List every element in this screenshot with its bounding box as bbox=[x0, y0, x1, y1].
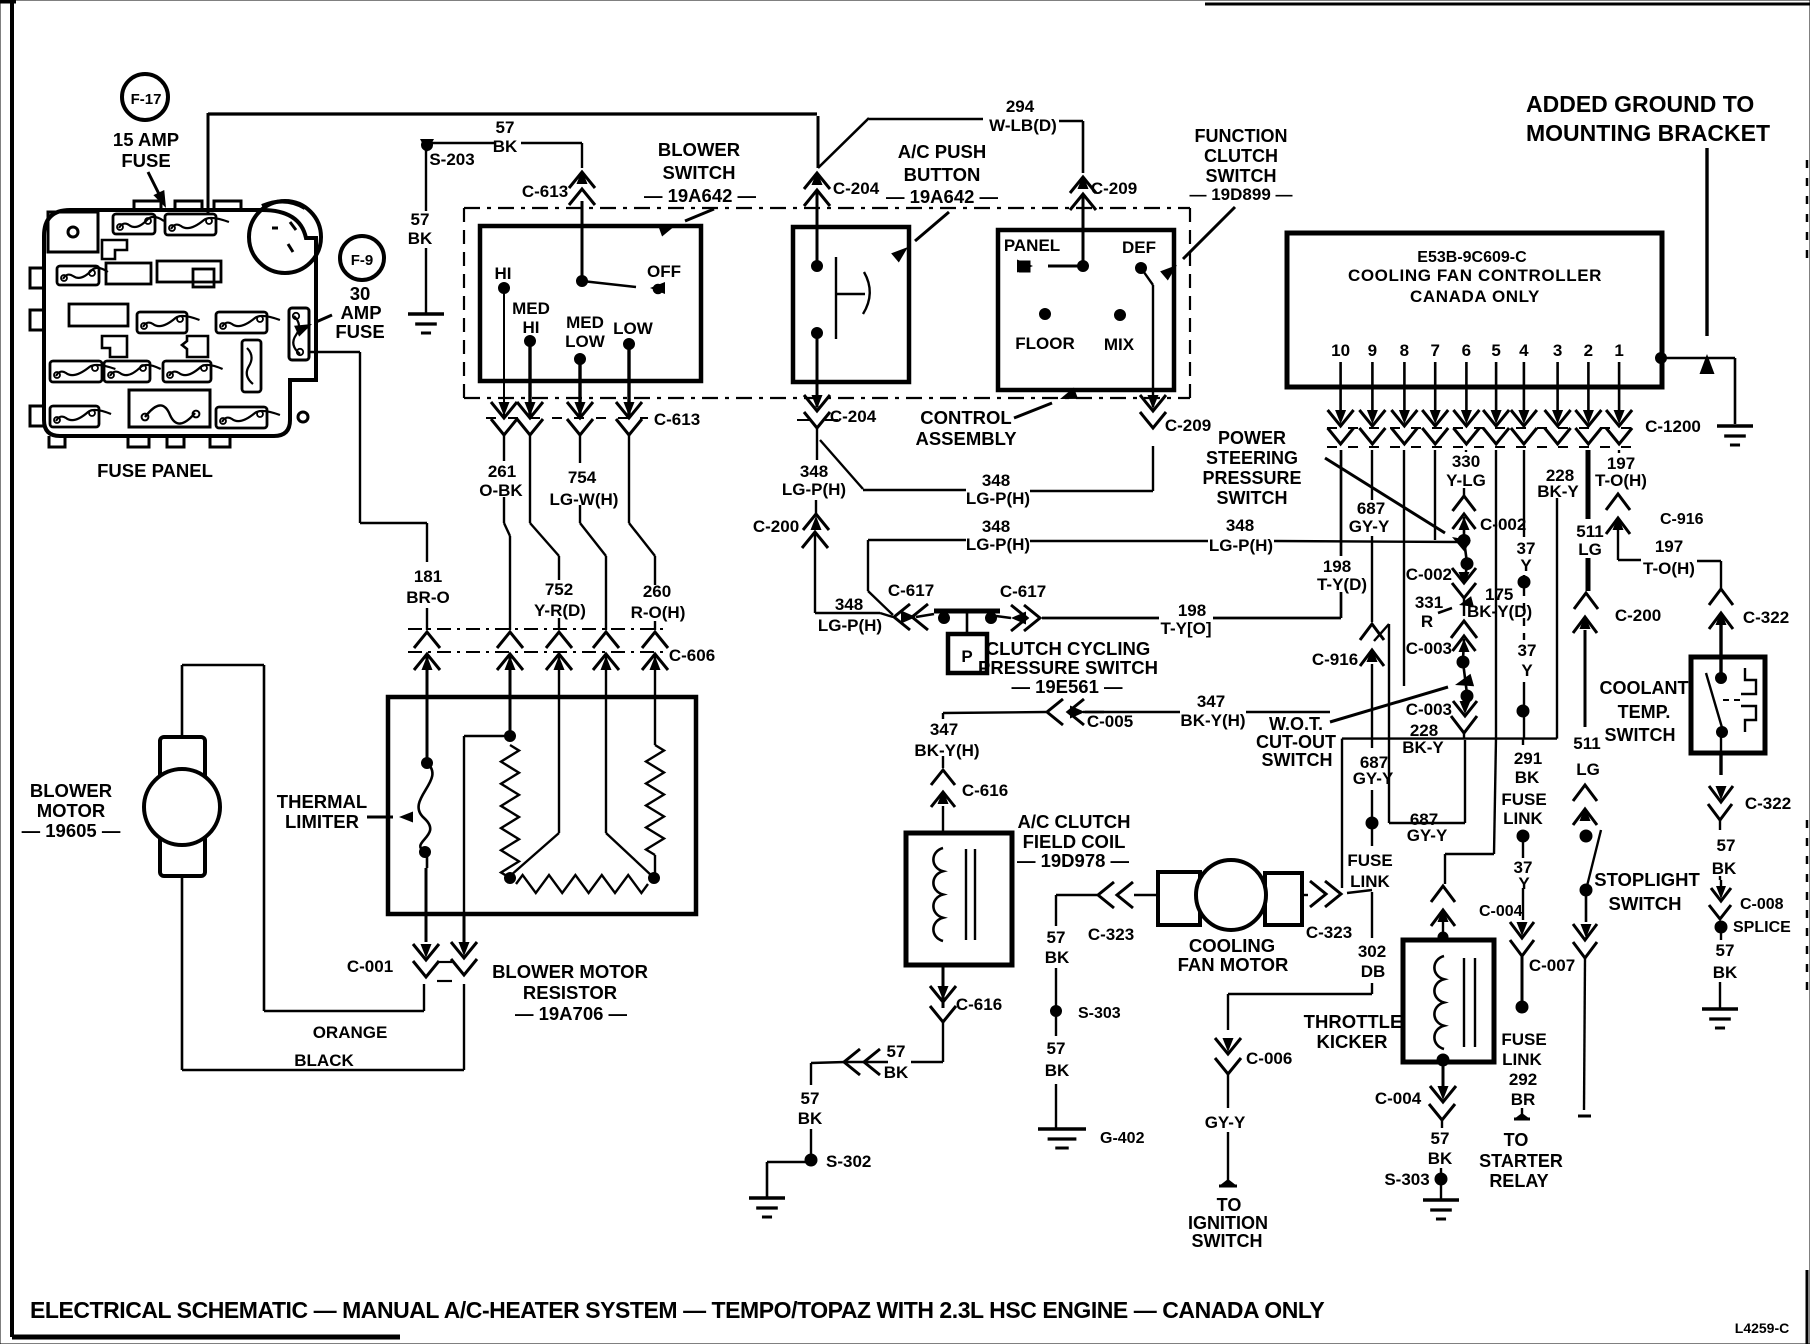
cooling fan controller box bbox=[1287, 233, 1662, 387]
wire main feed bus bbox=[208, 112, 817, 115]
node AC switch top bbox=[812, 261, 823, 272]
label S-303 kicker bbox=[1384, 1170, 1429, 1189]
label C-322 upper bbox=[1743, 608, 1789, 627]
arrow added ground bbox=[1700, 148, 1715, 374]
svg-text:T-Y[O]: T-Y[O] bbox=[1161, 619, 1212, 638]
svg-text:BK: BK bbox=[493, 137, 518, 156]
connector C-005 bbox=[1047, 699, 1104, 725]
svg-text:BK-Y(H): BK-Y(H) bbox=[914, 741, 979, 760]
label BLACK bbox=[294, 1051, 354, 1070]
label 228 BK-Y pin3 bbox=[1537, 466, 1579, 501]
svg-text:C-200: C-200 bbox=[753, 517, 799, 536]
connector C-616 lower bbox=[930, 986, 956, 1022]
wire funnel left bbox=[510, 833, 559, 876]
svg-text:O-BK: O-BK bbox=[479, 481, 523, 500]
label 348 LG-P(H) c bbox=[818, 595, 882, 635]
svg-text:LINK: LINK bbox=[1350, 872, 1390, 891]
label C-003 upper bbox=[1406, 639, 1452, 658]
connector C-613 lower bbox=[486, 402, 648, 435]
label G-402 bbox=[1100, 1130, 1145, 1147]
svg-text:57: 57 bbox=[801, 1089, 820, 1108]
label 57 BK top bbox=[493, 118, 518, 156]
wire coil to C-616 lower bbox=[942, 965, 945, 1008]
svg-text:OFF: OFF bbox=[647, 262, 681, 281]
label 15 AMP FUSE bbox=[113, 129, 179, 171]
connector C-002 lower bbox=[1452, 564, 1476, 598]
svg-text:S-302: S-302 bbox=[826, 1152, 871, 1171]
svg-text:C-323: C-323 bbox=[1306, 923, 1352, 942]
resistor R3 bottom bbox=[516, 875, 648, 893]
svg-text:SPLICE: SPLICE bbox=[1733, 919, 1791, 936]
svg-text:C-008: C-008 bbox=[1740, 896, 1784, 913]
wire S-302 to ground bbox=[767, 1162, 811, 1197]
label 752 Y-R(D) bbox=[534, 580, 586, 620]
svg-text:TO: TO bbox=[1504, 1130, 1529, 1150]
svg-text:HI: HI bbox=[495, 264, 512, 283]
svg-text:C-003: C-003 bbox=[1406, 700, 1452, 719]
function clutch switch box bbox=[998, 230, 1174, 390]
svg-text:T-O(H): T-O(H) bbox=[1643, 559, 1695, 578]
label FLOOR bbox=[1015, 334, 1075, 353]
svg-text:BK: BK bbox=[1712, 859, 1737, 878]
svg-text:BK-Y: BK-Y bbox=[1402, 738, 1444, 757]
label 198 T-Y(O) bbox=[1161, 601, 1212, 638]
arrow thermal limiter bbox=[367, 812, 413, 823]
label S-203 bbox=[429, 150, 474, 169]
label C-613 upper bbox=[522, 182, 568, 201]
label 57 BK coolant bbox=[1712, 836, 1737, 878]
label 175 BK-Y(D) bbox=[1467, 585, 1532, 621]
label L4259-C bbox=[1735, 1320, 1789, 1336]
svg-text:CUT-OUT: CUT-OUT bbox=[1256, 732, 1336, 752]
label 197 T-O(H) lower bbox=[1643, 537, 1695, 578]
svg-text:FUSE: FUSE bbox=[1501, 1030, 1546, 1049]
wire pin5 to C-004 bbox=[1445, 450, 1496, 884]
svg-text:Y: Y bbox=[1521, 661, 1533, 680]
connector C-001 bbox=[413, 942, 477, 981]
label MED HI bbox=[512, 299, 550, 337]
connector C-209 lower bbox=[1140, 395, 1166, 428]
label BLOWER MOTOR RESISTOR 19A706 bbox=[492, 961, 648, 1024]
svg-text:CLUTCH: CLUTCH bbox=[1204, 146, 1278, 166]
label 181 BR-O bbox=[406, 567, 449, 607]
node R1 bottom bbox=[505, 873, 516, 884]
connector C-200 pin2 bbox=[1573, 593, 1598, 633]
svg-text:SWITCH: SWITCH bbox=[663, 162, 736, 183]
wire to ground kicker bbox=[1440, 1179, 1442, 1199]
label A/C CLUTCH FIELD COIL 19D978 bbox=[1017, 811, 1131, 871]
ground G at S-302 bbox=[749, 1198, 785, 1217]
wire 57 BK to ground bbox=[1720, 927, 1721, 1008]
wire 348 C-200 down bbox=[815, 532, 893, 617]
svg-text:BK: BK bbox=[1713, 963, 1738, 982]
fuse F-17 circle bbox=[122, 74, 168, 120]
label C-916 pin1 bbox=[1660, 511, 1704, 528]
arrow blower switch label bbox=[658, 209, 714, 236]
wire MED HI to C-613 bbox=[528, 341, 531, 416]
svg-text:ASSEMBLY: ASSEMBLY bbox=[915, 428, 1017, 449]
wires C-606 into resistor box bbox=[427, 656, 655, 833]
svg-text:W.O.T.: W.O.T. bbox=[1269, 714, 1323, 734]
svg-text:C-004: C-004 bbox=[1479, 903, 1523, 920]
svg-text:348: 348 bbox=[800, 462, 828, 481]
wire C-209 into box bbox=[1082, 194, 1085, 266]
svg-text:347: 347 bbox=[930, 720, 958, 739]
svg-text:A/C PUSH: A/C PUSH bbox=[898, 141, 986, 162]
wire 57 BK kicker bbox=[1441, 1120, 1442, 1179]
svg-text:C-002: C-002 bbox=[1406, 565, 1452, 584]
svg-text:348: 348 bbox=[982, 471, 1010, 490]
title text bbox=[30, 1297, 1324, 1323]
svg-text:30: 30 bbox=[350, 283, 371, 304]
label 30 AMP FUSE bbox=[335, 283, 384, 342]
svg-text:FUSE PANEL: FUSE PANEL bbox=[97, 460, 213, 481]
svg-text:FUNCTION: FUNCTION bbox=[1195, 126, 1288, 146]
wire pin6 b bbox=[1463, 662, 1467, 694]
wire motor right bbox=[1302, 881, 1372, 907]
wire 754 LG-W(H) bbox=[580, 435, 606, 630]
wire GY-Y bbox=[1227, 1074, 1229, 1182]
splice S-203 bbox=[420, 139, 434, 152]
wire to C-001 left bbox=[424, 852, 427, 1011]
label C-322 lower bbox=[1745, 794, 1791, 813]
label C-200 pin2 bbox=[1615, 606, 1661, 625]
svg-text:THROTTLE: THROTTLE bbox=[1304, 1011, 1403, 1032]
wire pin4 a bbox=[1523, 450, 1525, 582]
coolant temp switch box bbox=[1691, 657, 1765, 753]
label 57 BK left bbox=[408, 210, 433, 248]
label 57 BK at coil bbox=[884, 1042, 909, 1082]
wire pin4 b dashed bbox=[1523, 588, 1525, 640]
wire HI to C-613 bbox=[503, 288, 505, 416]
label C-204 upper bbox=[833, 179, 880, 198]
svg-text:Y: Y bbox=[1520, 556, 1532, 575]
svg-text:AMP: AMP bbox=[340, 302, 381, 323]
svg-text:LG: LG bbox=[1578, 540, 1602, 559]
wire C-204 into box bbox=[816, 190, 819, 266]
svg-text:IGNITION: IGNITION bbox=[1188, 1213, 1268, 1233]
label CANADA ONLY bbox=[1410, 287, 1540, 306]
wire stoplight down bbox=[1573, 890, 1597, 958]
svg-text:C-005: C-005 bbox=[1087, 712, 1133, 731]
label 57 BK above S-302 bbox=[798, 1089, 823, 1128]
label FUSE LINK left bbox=[1347, 851, 1392, 891]
wire pin2 b bbox=[1584, 630, 1587, 727]
coil throttle kicker bbox=[1434, 956, 1444, 1049]
AC push button box bbox=[793, 227, 909, 382]
label MIX bbox=[1104, 335, 1135, 354]
svg-text:57: 57 bbox=[1716, 941, 1735, 960]
svg-text:C-204: C-204 bbox=[833, 179, 880, 198]
svg-text:A/C CLUTCH: A/C CLUTCH bbox=[1017, 811, 1130, 832]
label OFF bbox=[647, 262, 681, 281]
wire 57 BK motor b bbox=[1055, 1011, 1057, 1128]
svg-text:C-323: C-323 bbox=[1088, 925, 1134, 944]
svg-text:FUSE: FUSE bbox=[1501, 790, 1546, 809]
label SPLICE bbox=[1733, 919, 1791, 936]
svg-text:291: 291 bbox=[1514, 749, 1542, 768]
wire pin4 e bbox=[1521, 956, 1524, 1007]
node FLOOR contact bbox=[1040, 309, 1051, 320]
blower switch box bbox=[480, 226, 701, 381]
svg-text:331: 331 bbox=[1415, 593, 1443, 612]
svg-text:9: 9 bbox=[1368, 341, 1377, 360]
svg-text:C-004: C-004 bbox=[1375, 1089, 1422, 1108]
label FUSE PANEL bbox=[97, 460, 213, 481]
label C-005 bbox=[1087, 712, 1133, 731]
wire controller case ground bbox=[1661, 358, 1735, 424]
svg-text:BK-Y(H): BK-Y(H) bbox=[1180, 711, 1245, 730]
svg-text:MIX: MIX bbox=[1104, 335, 1135, 354]
svg-text:SWITCH: SWITCH bbox=[1605, 725, 1676, 745]
wire 15 amp fuse to bus bbox=[207, 113, 210, 215]
wire 197 to coolant switch bbox=[1618, 518, 1721, 589]
svg-text:BK: BK bbox=[1515, 768, 1540, 787]
svg-text:BR: BR bbox=[1511, 1090, 1536, 1109]
svg-text:C-613: C-613 bbox=[522, 182, 568, 201]
border frame left edge bbox=[12, 0, 400, 1337]
wire pin4 d bbox=[1522, 836, 1524, 920]
connector C-007 a bbox=[1510, 922, 1534, 956]
label PANEL bbox=[1004, 236, 1060, 255]
label COOLANT TEMP SWITCH bbox=[1600, 678, 1689, 745]
svg-text:C-606: C-606 bbox=[669, 646, 715, 665]
node stoplight b bbox=[1580, 884, 1592, 896]
svg-text:— 19605 —: — 19605 — bbox=[22, 820, 121, 841]
svg-text:COOLANT: COOLANT bbox=[1600, 678, 1689, 698]
node C-003 b bbox=[1461, 690, 1473, 702]
connector C-322 lower bbox=[1708, 786, 1733, 820]
svg-text:57: 57 bbox=[1431, 1129, 1450, 1148]
svg-text:C-322: C-322 bbox=[1743, 608, 1789, 627]
wire AC switch to C-204 lower bbox=[816, 333, 819, 407]
wire 347 BK-Y(H) bbox=[943, 712, 1330, 768]
label 291 BK FUSE LINK bbox=[1501, 749, 1546, 828]
label COOLING FAN CONTROLLER bbox=[1348, 266, 1602, 285]
ground G at controller bbox=[1717, 426, 1753, 445]
label THERMAL LIMITER bbox=[277, 791, 367, 832]
arrow control assembly bbox=[1014, 388, 1078, 418]
svg-text:ORANGE: ORANGE bbox=[313, 1023, 388, 1042]
svg-text:P: P bbox=[961, 647, 972, 666]
svg-text:C-617: C-617 bbox=[888, 581, 934, 600]
label 261 O-BK bbox=[479, 462, 523, 500]
label 57 BK motor b bbox=[1045, 1039, 1070, 1080]
connector C-617 left bbox=[894, 604, 934, 630]
kicker core lines bbox=[1464, 958, 1475, 1047]
svg-text:BK: BK bbox=[1428, 1149, 1453, 1168]
svg-text:C-002: C-002 bbox=[1480, 515, 1526, 534]
connector C-004 lower bbox=[1429, 1086, 1456, 1120]
svg-text:— 19A706 —: — 19A706 — bbox=[515, 1003, 628, 1024]
svg-text:PRESSURE: PRESSURE bbox=[1202, 468, 1301, 488]
svg-text:Y-LG: Y-LG bbox=[1446, 471, 1486, 490]
node C-002 b bbox=[1461, 558, 1473, 570]
clutch cycling pressure switch bbox=[934, 611, 1000, 673]
svg-text:R: R bbox=[1421, 612, 1433, 631]
svg-text:BLOWER: BLOWER bbox=[30, 780, 112, 801]
svg-text:687: 687 bbox=[1357, 499, 1385, 518]
svg-text:C-209: C-209 bbox=[1091, 179, 1137, 198]
wire 198 T-Y(O) bbox=[1042, 592, 1341, 618]
coolant switch element bbox=[1723, 668, 1756, 732]
node C-002 a bbox=[1458, 535, 1470, 547]
connector C-002 upper bbox=[1453, 496, 1476, 538]
svg-text:BK: BK bbox=[408, 229, 433, 248]
splice S-303 motor bbox=[1051, 1006, 1062, 1017]
label C-002 upper bbox=[1480, 515, 1526, 534]
label LOW bbox=[613, 319, 654, 338]
node fuse link pin9 bbox=[1366, 817, 1378, 829]
svg-text:C-003: C-003 bbox=[1406, 639, 1452, 658]
node HI contact bbox=[499, 283, 510, 294]
label E53B-9C609-C bbox=[1417, 249, 1527, 266]
node fuse link 292 bbox=[1516, 1001, 1528, 1013]
svg-text:BLACK: BLACK bbox=[294, 1051, 354, 1070]
label 57 BK splice bbox=[1713, 941, 1738, 982]
wire coolant switch out bbox=[1720, 732, 1722, 775]
label C-616 lower bbox=[956, 995, 1002, 1014]
svg-text:MOUNTING BRACKET: MOUNTING BRACKET bbox=[1526, 120, 1770, 146]
connector C-613 upper bbox=[569, 170, 595, 205]
label 687 GY-Y mid bbox=[1353, 753, 1394, 788]
svg-text:CLUTCH CYCLING: CLUTCH CYCLING bbox=[986, 638, 1150, 659]
node LOW contact bbox=[624, 339, 635, 350]
svg-text:330: 330 bbox=[1452, 452, 1480, 471]
connector C-616 upper bbox=[931, 770, 955, 807]
svg-text:294: 294 bbox=[1006, 97, 1035, 116]
label C-617 left bbox=[888, 581, 934, 600]
arrow 331 R bbox=[1438, 596, 1474, 613]
svg-text:BLOWER MOTOR: BLOWER MOTOR bbox=[492, 961, 648, 982]
wire black bbox=[182, 876, 464, 1070]
throttle kicker box bbox=[1403, 940, 1494, 1062]
svg-text:S-303: S-303 bbox=[1078, 1005, 1121, 1022]
svg-text:DEF: DEF bbox=[1122, 238, 1156, 257]
label DEF bbox=[1122, 238, 1156, 257]
cooling fan motor symbol bbox=[1158, 860, 1302, 930]
svg-text:C-916: C-916 bbox=[1312, 650, 1358, 669]
svg-text:MED: MED bbox=[566, 313, 604, 332]
wire 57 BK coolant a bbox=[1719, 820, 1721, 880]
svg-text:PRESSURE SWITCH: PRESSURE SWITCH bbox=[978, 657, 1158, 678]
label CLUTCH CYCLING PRESSURE SWITCH 19E561 bbox=[978, 638, 1158, 697]
svg-text:754: 754 bbox=[568, 468, 597, 487]
label C-209 lower bbox=[1165, 416, 1211, 435]
wire pin9 lower bbox=[1371, 664, 1373, 846]
svg-text:CANADA ONLY: CANADA ONLY bbox=[1410, 287, 1540, 306]
thermal limiter bbox=[419, 758, 433, 858]
connector C-204 lower bbox=[797, 395, 838, 428]
label 198 T-Y(D) bbox=[1317, 557, 1367, 594]
svg-text:C-916: C-916 bbox=[1660, 511, 1704, 528]
label C-008 bbox=[1740, 896, 1784, 913]
ground G kicker bbox=[1423, 1200, 1459, 1219]
svg-text:TEMP.: TEMP. bbox=[1618, 702, 1671, 722]
connector C-003 upper bbox=[1453, 636, 1476, 660]
label 294 W-LB(D) bbox=[989, 97, 1057, 135]
svg-text:57: 57 bbox=[1717, 836, 1736, 855]
svg-text:STARTER: STARTER bbox=[1479, 1151, 1563, 1171]
svg-text:LG-P(H): LG-P(H) bbox=[818, 616, 882, 635]
wire funnel right bbox=[606, 833, 652, 876]
node pin4 b bbox=[1517, 705, 1529, 717]
ground G coolant bbox=[1702, 1009, 1738, 1028]
svg-text:LG: LG bbox=[1576, 760, 1600, 779]
svg-text:LOW: LOW bbox=[565, 332, 606, 351]
svg-text:BUTTON: BUTTON bbox=[904, 164, 981, 185]
label C-617 right bbox=[1000, 582, 1046, 601]
wire pin9 upper bbox=[1371, 450, 1373, 622]
splice S-302 bbox=[805, 1154, 817, 1166]
node pin4 a bbox=[1518, 576, 1530, 588]
svg-text:511: 511 bbox=[1576, 522, 1603, 541]
connector C-322 upper bbox=[1709, 589, 1733, 629]
svg-text:C-1200: C-1200 bbox=[1645, 417, 1701, 436]
svg-text:752: 752 bbox=[545, 580, 573, 599]
coil AC clutch bbox=[933, 848, 943, 941]
connector C-323 left bbox=[1098, 882, 1133, 908]
svg-text:SWITCH: SWITCH bbox=[1262, 750, 1333, 770]
svg-text:261: 261 bbox=[488, 462, 516, 481]
node R2 bottom bbox=[649, 873, 660, 884]
svg-text:FUSE: FUSE bbox=[121, 150, 170, 171]
svg-text:TO: TO bbox=[1217, 1195, 1242, 1215]
svg-text:Y: Y bbox=[1518, 874, 1530, 893]
label ORANGE bbox=[313, 1023, 388, 1042]
svg-text:RELAY: RELAY bbox=[1489, 1171, 1548, 1191]
controller pin stubs bbox=[1341, 362, 1620, 420]
node MED HI contact bbox=[525, 336, 536, 347]
svg-text:348: 348 bbox=[835, 595, 863, 614]
svg-text:MED: MED bbox=[512, 299, 550, 318]
label 347 BK-Y(H) right bbox=[1180, 692, 1245, 730]
ground G-402 bbox=[1038, 1129, 1086, 1148]
svg-text:— 19A642 —: — 19A642 — bbox=[886, 186, 999, 207]
svg-text:LG-P(H): LG-P(H) bbox=[966, 535, 1030, 554]
label C-004 lower bbox=[1375, 1089, 1422, 1108]
svg-text:LG-P(H): LG-P(H) bbox=[782, 480, 846, 499]
svg-text:2: 2 bbox=[1584, 341, 1593, 360]
svg-text:T-Y(D): T-Y(D) bbox=[1317, 575, 1367, 594]
svg-text:57: 57 bbox=[1047, 1039, 1066, 1058]
resistor R1 bbox=[501, 745, 519, 878]
label 347 BK-Y(H) left bbox=[914, 720, 979, 760]
svg-text:THERMAL: THERMAL bbox=[277, 791, 367, 812]
svg-text:— 19A642 —: — 19A642 — bbox=[644, 185, 757, 206]
terminator to starter relay bbox=[1514, 1108, 1530, 1119]
label FUNCTION CLUTCH SWITCH 19D899 bbox=[1190, 126, 1293, 204]
svg-text:57: 57 bbox=[887, 1042, 906, 1061]
svg-text:57: 57 bbox=[411, 210, 430, 229]
svg-text:SWITCH: SWITCH bbox=[1192, 1231, 1263, 1251]
label 348 LG-P(H) e bbox=[1209, 516, 1273, 555]
wire 228 BK-Y bbox=[1342, 498, 1557, 888]
blower switch OFF contact bbox=[582, 281, 665, 294]
svg-text:57: 57 bbox=[496, 118, 515, 137]
wire MED LOW to C-613 bbox=[578, 359, 581, 416]
svg-text:ADDED GROUND TO: ADDED GROUND TO bbox=[1526, 91, 1754, 117]
label C-323 left bbox=[1088, 925, 1134, 944]
node MIX contact bbox=[1115, 310, 1126, 321]
label 348 LG-P(H) b bbox=[966, 471, 1030, 508]
svg-text:E53B-9C609-C: E53B-9C609-C bbox=[1417, 249, 1527, 266]
svg-text:3: 3 bbox=[1553, 341, 1562, 360]
wire C-004 into kicker bbox=[1438, 910, 1448, 942]
svg-text:T-O(H): T-O(H) bbox=[1595, 471, 1647, 490]
connector C-209 upper bbox=[1070, 175, 1096, 210]
wire 687 GY-Y loop bbox=[1374, 624, 1465, 823]
